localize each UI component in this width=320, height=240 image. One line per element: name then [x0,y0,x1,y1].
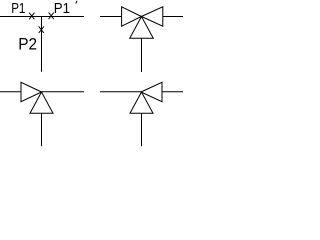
label P1' prime tick [76,1,77,4]
svg-text:P1: P1 [11,0,25,17]
node P2 seat mark (x) [39,26,44,33]
wire: right outlet pipe of valve V3 [162,91,183,93]
valve V3 body triangle (points left) [141,82,162,102]
wire: right outlet pipe of valve V1 [163,16,183,18]
valve V2 bottom port triangle [30,92,53,113]
wire: left inlet pipe of valve V1 [100,16,122,18]
node P1' seat mark (x) [49,13,54,20]
valve V1 bottom port triangle [130,17,154,39]
svg-text:P1: P1 [54,0,70,17]
valve V3 bottom port triangle [130,92,153,113]
wire: left inlet pipe of valve V2 [0,91,21,93]
wire: bottom pipe of valve V1 [141,38,143,72]
node P1 seat mark (x) [29,13,34,20]
svg-text:P2: P2 [18,34,37,53]
valve V1 right body triangle [141,7,162,27]
wire: vertical pipe through seat P2 [41,17,43,72]
wire: right outlet pipe of valve V2 [42,91,85,93]
wire: left inlet pipe of valve V3 [100,91,141,93]
valve V2 body triangle (points right) [21,82,42,102]
valve V1 left body triangle [122,7,142,27]
wire: bottom pipe of valve V3 [141,113,143,146]
wire: bottom pipe of valve V2 [41,113,43,146]
wire: horizontal pipe through seats P1 and P1' [0,16,84,18]
